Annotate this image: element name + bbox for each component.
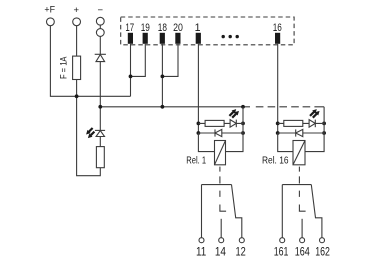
svg-text:−: − [98,5,104,16]
svg-text:162: 162 [315,245,330,259]
svg-text:19: 19 [141,22,150,34]
svg-text:164: 164 [295,245,310,259]
svg-text:11: 11 [196,245,207,259]
svg-text:F = 1A: F = 1A [59,57,69,80]
svg-text:20: 20 [173,22,183,34]
svg-text:Rel. 16: Rel. 16 [262,155,289,166]
svg-text:1: 1 [195,22,201,34]
svg-text:Rel. 1: Rel. 1 [186,155,206,166]
svg-text:14: 14 [215,245,226,259]
svg-text:161: 161 [274,245,289,259]
svg-text:16: 16 [273,22,282,34]
svg-text:+: + [74,5,80,16]
svg-text:12: 12 [235,245,246,259]
svg-text:+F: +F [44,4,55,15]
svg-text:17: 17 [125,22,134,34]
svg-text:18: 18 [158,22,167,34]
